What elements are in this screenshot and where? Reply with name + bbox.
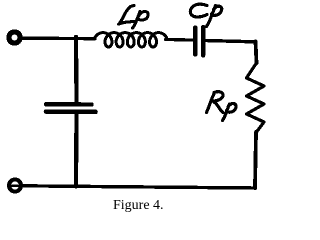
wire shunt branch lower xyxy=(74,112,79,187)
label Lp xyxy=(119,6,149,29)
terminal bottom-left xyxy=(9,180,21,192)
wire right vertical lower xyxy=(255,132,256,188)
shunt capacitor bottom plate xyxy=(46,109,96,114)
capacitor Cp right plate xyxy=(201,27,205,56)
terminal top-left xyxy=(9,32,20,43)
wire: coil to Cp xyxy=(166,38,194,42)
wire shunt branch upper xyxy=(74,38,79,103)
resistor Rp zigzag xyxy=(247,63,265,132)
node junction top xyxy=(74,37,78,40)
wire right vertical upper xyxy=(256,42,257,64)
svg-text:Figure 4.: Figure 4. xyxy=(113,198,164,213)
wire: Cp to top-right corner xyxy=(206,41,256,43)
shunt capacitor top plate xyxy=(46,102,92,107)
wire top: terminal to junction to coil xyxy=(21,37,95,41)
wire bottom xyxy=(21,186,256,188)
capacitor Cp left plate xyxy=(193,28,197,55)
inductor Lp coil xyxy=(95,33,167,47)
label Rp xyxy=(207,92,237,121)
label Cp xyxy=(190,4,221,26)
